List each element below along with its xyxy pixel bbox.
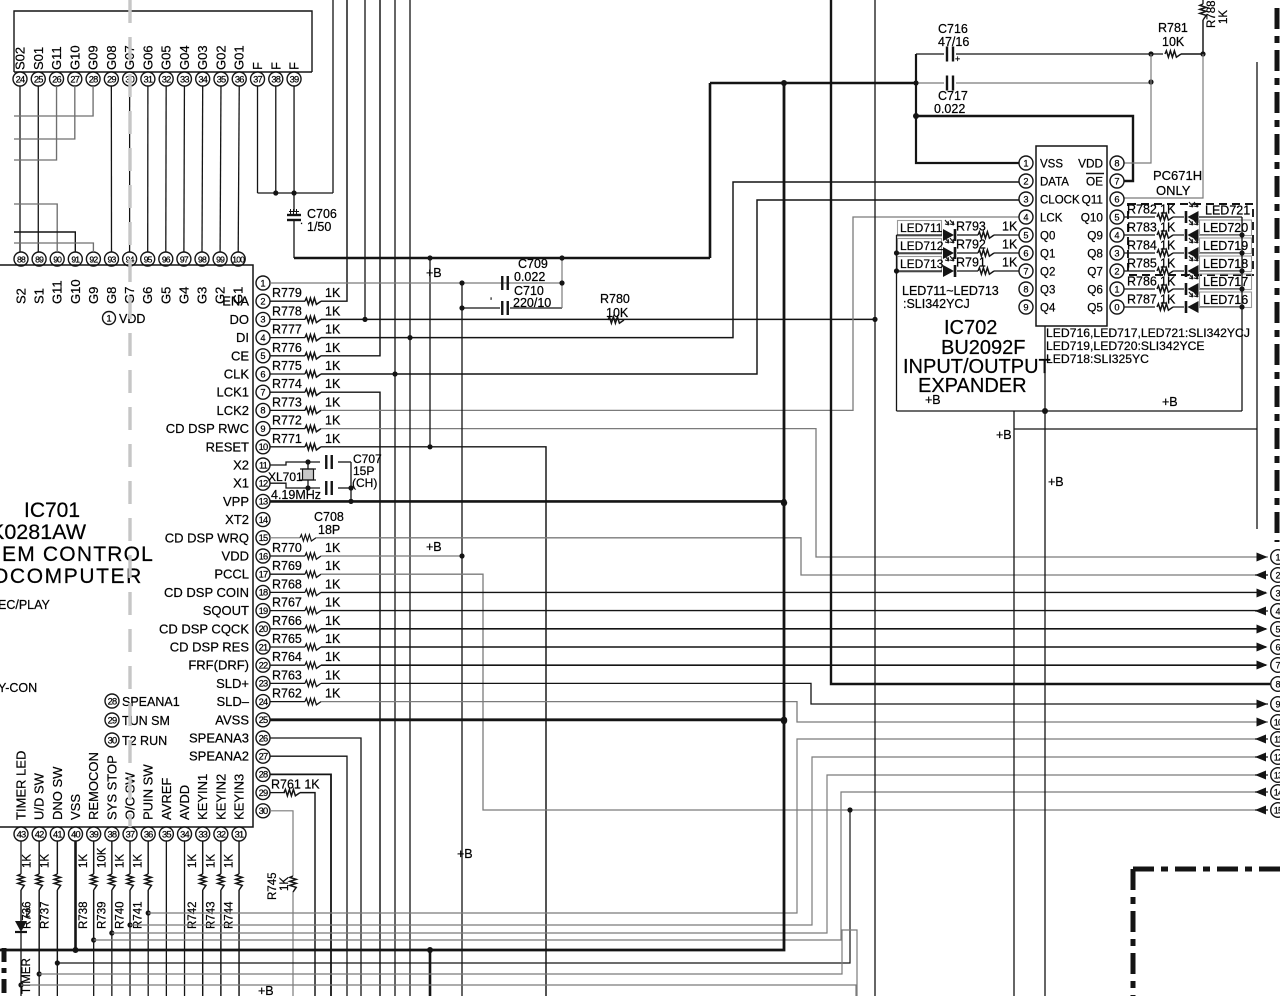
svg-text:R787: R787 — [1127, 293, 1157, 307]
svg-text:9: 9 — [260, 424, 265, 434]
svg-text:X2: X2 — [233, 458, 249, 473]
svg-text:R775: R775 — [272, 359, 302, 373]
svg-text:0.022: 0.022 — [514, 270, 545, 284]
wire X1 row — [270, 483, 320, 488]
OE overline — [1086, 173, 1104, 175]
wire LCK1 down — [321, 392, 380, 996]
svg-text:SPEANA3: SPEANA3 — [189, 731, 249, 746]
svg-text:VDD: VDD — [1078, 157, 1103, 171]
svg-text:R792: R792 — [956, 238, 986, 252]
svg-text:35: 35 — [162, 829, 171, 839]
wire U/D SW net jog — [39, 930, 857, 996]
svg-text:1K: 1K — [1002, 220, 1018, 234]
svg-text:G9: G9 — [86, 287, 101, 304]
svg-text:G5: G5 — [158, 287, 173, 304]
svg-text:95: 95 — [144, 254, 153, 264]
svg-text:8: 8 — [1275, 679, 1280, 689]
svg-text:C706: C706 — [307, 207, 337, 221]
svg-text:9: 9 — [1023, 302, 1028, 312]
svg-text:1K: 1K — [325, 304, 341, 318]
node RESET junction — [427, 444, 432, 449]
wire G08 pin29 to pin93 — [110, 86, 112, 252]
svg-text:23: 23 — [259, 679, 268, 689]
svg-text:+B: +B — [1162, 395, 1178, 409]
wire pin40 VSS thick down — [74, 841, 77, 950]
svg-text:EC/PLAY: EC/PLAY — [0, 598, 51, 612]
svg-text:12: 12 — [259, 479, 268, 489]
svg-text:93: 93 — [108, 254, 117, 264]
svg-text:R745: R745 — [267, 873, 279, 901]
svg-text:1/50: 1/50 — [307, 220, 331, 234]
svg-text:G08: G08 — [104, 45, 119, 70]
resistor R776 1K — [270, 355, 305, 357]
svg-text:7: 7 — [1275, 660, 1280, 670]
svg-text:10K: 10K — [1162, 35, 1185, 49]
svg-text:34: 34 — [198, 74, 207, 84]
svg-text:1K: 1K — [224, 854, 236, 868]
svg-text:88: 88 — [17, 254, 26, 264]
svg-text:18P: 18P — [318, 523, 340, 537]
svg-text:1K: 1K — [325, 577, 341, 591]
svg-text:G03: G03 — [195, 45, 210, 70]
svg-text:R740: R740 — [115, 902, 127, 930]
diode timer LED — [15, 921, 27, 932]
svg-text:+B: +B — [426, 266, 442, 280]
svg-text:41: 41 — [53, 829, 62, 839]
svg-text:100: 100 — [232, 254, 245, 264]
svg-text:6: 6 — [1023, 248, 1028, 258]
resistor R767 1K — [270, 610, 305, 612]
resistor R777 1K — [270, 337, 305, 339]
svg-text:2: 2 — [1275, 570, 1280, 580]
svg-text:1K: 1K — [1160, 293, 1176, 307]
wire DO long vertical x875 — [874, 0, 876, 996]
svg-text:G05: G05 — [159, 45, 174, 70]
wire pin1 +B row — [270, 282, 562, 284]
svg-text:14: 14 — [259, 515, 268, 525]
wire pin37 down — [129, 841, 131, 874]
node C710 junction — [459, 305, 464, 310]
wire +B left frame — [896, 235, 898, 411]
node timer junction — [18, 982, 23, 987]
svg-text:F: F — [268, 62, 283, 70]
svg-text:R774: R774 — [272, 377, 302, 391]
svg-text:AVSS: AVSS — [215, 712, 249, 727]
svg-text:SLD–: SLD– — [216, 694, 249, 709]
svg-text:0: 0 — [1114, 302, 1119, 312]
wire thick y83 to C717 — [710, 82, 916, 84]
wire O/C SW net to row12 — [130, 757, 1262, 925]
svg-text:3: 3 — [260, 315, 265, 325]
svg-text:1K: 1K — [1002, 256, 1018, 270]
resistor R792 1K — [957, 252, 978, 254]
svg-text:1: 1 — [1114, 284, 1119, 294]
svg-text:19: 19 — [259, 606, 268, 616]
wire VSS to IC702 pin1 — [916, 54, 1019, 163]
svg-text:1K: 1K — [325, 614, 341, 628]
wire CLK to CLOCK — [321, 200, 1019, 374]
wire SYS STOP net to row13 — [112, 775, 1262, 933]
wire SLD- row10 — [321, 702, 1268, 722]
svg-text:Q10: Q10 — [1081, 211, 1104, 225]
svg-text:LCK: LCK — [1040, 213, 1063, 225]
svg-text:96: 96 — [162, 254, 171, 264]
svg-text:R782: R782 — [1127, 203, 1157, 217]
wire REMOCON net to row14 — [94, 792, 1262, 940]
wire pin41 down — [56, 841, 58, 874]
svg-text:32: 32 — [216, 829, 225, 839]
svg-text:1K: 1K — [1160, 275, 1176, 289]
svg-text:2: 2 — [1114, 266, 1119, 276]
svg-text:4: 4 — [260, 333, 265, 343]
svg-text:1: 1 — [1275, 552, 1280, 562]
wire G10 pin91 jog left — [14, 232, 75, 252]
wire DNO SW net to row15 — [57, 810, 850, 963]
svg-text:32: 32 — [162, 74, 171, 84]
svg-text:6: 6 — [1275, 642, 1280, 652]
resistor R770 1K — [270, 555, 305, 557]
svg-text:TIMER LED: TIMER LED — [14, 751, 29, 820]
svg-text:R781: R781 — [1158, 21, 1188, 35]
svg-text:3: 3 — [1114, 248, 1119, 258]
svg-text:1K: 1K — [325, 395, 341, 409]
node connector pin 15 — [1271, 803, 1280, 818]
svg-text:1K: 1K — [78, 854, 90, 868]
wire gray y83 C717 segment — [916, 82, 944, 84]
svg-text:R788: R788 — [1206, 1, 1218, 29]
node VSS junction — [559, 255, 564, 260]
node connector pin 12 — [1271, 750, 1280, 765]
svg-text:47/16: 47/16 — [938, 35, 969, 49]
svg-text:1K: 1K — [325, 377, 341, 391]
capacitor C708 — [325, 481, 327, 495]
svg-text:12: 12 — [1274, 752, 1280, 762]
svg-text:XT2: XT2 — [225, 512, 249, 527]
svg-text:7: 7 — [1114, 176, 1119, 186]
svg-text:R780: R780 — [600, 292, 630, 306]
resistor R780 10K symbol — [608, 317, 624, 323]
svg-text:14: 14 — [1274, 787, 1280, 797]
svg-text:VDD: VDD — [119, 312, 145, 326]
node connector pin 13 — [1271, 768, 1280, 783]
svg-text:35: 35 — [217, 74, 226, 84]
svg-text:LCK2: LCK2 — [216, 403, 249, 418]
node +B right junctions — [1239, 232, 1244, 237]
svg-text:1K: 1K — [22, 854, 34, 868]
resistor R785 1K — [1124, 270, 1155, 272]
wire VSS thick x430 down — [429, 950, 432, 996]
wire G11 pin26 jog left — [14, 86, 57, 160]
wire +B bottom frame y411 — [897, 410, 1243, 412]
svg-text:G10: G10 — [67, 45, 82, 70]
svg-text:1K: 1K — [1218, 10, 1230, 24]
svg-text:LCK1: LCK1 — [216, 385, 249, 400]
svg-text:1K: 1K — [1160, 257, 1176, 271]
svg-text:U/D SW: U/D SW — [32, 772, 47, 820]
svg-text:LED718:SLI325YC: LED718:SLI325YC — [1046, 352, 1149, 366]
svg-text:': ' — [490, 296, 492, 308]
wire CQCK row5 — [321, 628, 1266, 630]
svg-text:13: 13 — [259, 497, 268, 507]
svg-text:SQOUT: SQOUT — [203, 603, 249, 618]
resistor on pin41 vertical — [54, 874, 60, 890]
svg-text:R766: R766 — [272, 614, 302, 628]
svg-text:9: 9 — [1275, 699, 1280, 709]
wire C706 net thick y258 — [294, 257, 710, 260]
wire G01 pin36 to pin100 — [238, 86, 239, 252]
svg-text:1K: 1K — [325, 359, 341, 373]
node connector pin 1 — [1271, 550, 1280, 565]
capacitor C706 — [293, 193, 295, 211]
resistor R778 1K — [270, 318, 305, 320]
wire TIMER LED net — [21, 985, 856, 996]
svg-text:R767: R767 — [272, 596, 302, 610]
svg-text:29: 29 — [259, 788, 268, 798]
svg-text:3: 3 — [1275, 588, 1280, 598]
IC701 bottom pins 43-31 — [14, 827, 28, 841]
node R781 junctions — [1148, 51, 1153, 56]
resistor R793 1K — [957, 234, 978, 236]
resistor R741 1K vertical — [145, 874, 151, 890]
svg-text:5: 5 — [1023, 230, 1028, 240]
resistor pin15 CD DSP WRQ — [270, 537, 300, 539]
resistor R783 1K — [1124, 234, 1155, 236]
svg-text:G11: G11 — [49, 46, 64, 70]
svg-text:Q3: Q3 — [1040, 285, 1055, 297]
svg-text:1: 1 — [106, 313, 111, 324]
vertical bus line x430 — [429, 258, 431, 447]
wire +B vertical x462 — [461, 283, 463, 996]
svg-text:CE: CE — [231, 348, 249, 363]
svg-text:1K: 1K — [133, 854, 145, 868]
svg-text:220/10: 220/10 — [513, 296, 551, 310]
svg-text:28: 28 — [108, 696, 117, 706]
node connector pin 14 — [1271, 785, 1280, 800]
svg-text:1K: 1K — [325, 559, 341, 573]
svg-text:RESET: RESET — [206, 439, 249, 454]
page border dash-dot bottom left — [2, 948, 7, 996]
wire pin28 down — [270, 774, 331, 996]
LED LED717 — [1173, 288, 1184, 290]
resistor R773 1K — [270, 409, 305, 411]
svg-text:26: 26 — [52, 74, 61, 84]
svg-text:LED711: LED711 — [900, 221, 943, 235]
svg-text:33: 33 — [198, 829, 207, 839]
svg-text:2: 2 — [260, 297, 265, 307]
capacitor C716 — [946, 47, 948, 62]
interior pin 29 TUN SM — [105, 713, 119, 727]
resistor R774 1K — [270, 391, 305, 393]
svg-text:Q0: Q0 — [1040, 231, 1055, 243]
svg-text:1K: 1K — [1160, 203, 1176, 217]
svg-text:R784: R784 — [1127, 239, 1157, 253]
node connector pin 10 — [1271, 715, 1280, 730]
svg-text:R785: R785 — [1127, 257, 1157, 271]
wire RESET down — [321, 447, 546, 996]
svg-text:G8: G8 — [104, 287, 119, 304]
svg-text:89: 89 — [35, 254, 44, 264]
svg-text:33: 33 — [180, 74, 189, 84]
svg-text:+B: +B — [426, 540, 442, 554]
svg-text:R739: R739 — [96, 902, 108, 930]
svg-text:G02: G02 — [213, 45, 228, 70]
svg-text:21: 21 — [259, 642, 268, 652]
svg-text:24: 24 — [259, 697, 268, 707]
svg-text:1K: 1K — [325, 687, 341, 701]
node VSS junction — [73, 947, 79, 953]
svg-text:8: 8 — [1114, 158, 1119, 168]
LED LED720 — [1173, 234, 1184, 236]
svg-text:OCOMPUTER: OCOMPUTER — [0, 565, 143, 588]
svg-text:PUIN SW: PUIN SW — [141, 764, 156, 820]
wire pin32 down — [220, 841, 222, 874]
node row15 junction — [847, 807, 852, 812]
svg-text:R769: R769 — [272, 559, 302, 573]
svg-text:DI: DI — [236, 330, 249, 345]
svg-text:AVDD: AVDD — [177, 785, 192, 820]
svg-text:G3: G3 — [195, 287, 210, 304]
svg-text:S2: S2 — [14, 288, 29, 304]
LED LED721 — [1173, 216, 1184, 218]
resistor R772 1K — [270, 428, 305, 430]
wire VDD to +B — [321, 555, 462, 557]
vertical bus line x410 — [409, 0, 411, 996]
resistor R787 1K — [1124, 306, 1155, 308]
svg-text:CD DSP RES: CD DSP RES — [170, 640, 250, 655]
svg-text:18: 18 — [259, 588, 268, 598]
page border dash-dot bottom right corner — [1133, 867, 1280, 872]
wire pin42 down — [38, 841, 40, 874]
svg-text:28: 28 — [89, 74, 98, 84]
node CLK junction — [392, 371, 397, 376]
capacitor C717 — [946, 76, 948, 91]
wire SQOUT row4 — [321, 610, 1266, 612]
svg-text:+B: +B — [925, 393, 941, 407]
svg-text:R791: R791 — [956, 256, 986, 270]
svg-text:CD DSP WRQ: CD DSP WRQ — [165, 530, 249, 545]
svg-text:IC702: IC702 — [944, 317, 997, 339]
svg-text:1K: 1K — [325, 432, 341, 446]
svg-text:27: 27 — [70, 74, 79, 84]
svg-text:Q6: Q6 — [1087, 283, 1103, 297]
svg-text:SYS STOP: SYS STOP — [104, 755, 119, 820]
op-amp IC702 BU2092F box — [1036, 146, 1107, 326]
wire OE thick net y116 — [916, 116, 1133, 181]
wire X2 row — [270, 462, 320, 465]
svg-text:S01: S01 — [31, 47, 46, 70]
wire VPP thick row — [270, 500, 784, 503]
node connector pin 7 — [1271, 658, 1280, 673]
svg-text:92: 92 — [89, 254, 98, 264]
svg-text:F: F — [287, 62, 302, 70]
svg-text:1K: 1K — [1160, 239, 1176, 253]
wire AVSS thick — [270, 718, 784, 721]
resistor R779 1K — [270, 300, 305, 302]
svg-text:4: 4 — [1114, 230, 1119, 240]
svg-text:Q8: Q8 — [1087, 247, 1103, 261]
svg-text:1K: 1K — [325, 286, 341, 300]
svg-text:G09: G09 — [86, 45, 101, 70]
svg-text:43: 43 — [17, 829, 26, 839]
node connector pin 6 — [1271, 640, 1280, 655]
wire RWC to connector row1 — [321, 429, 1268, 557]
node +B junction — [1042, 408, 1048, 414]
svg-text:SLD+: SLD+ — [216, 676, 249, 691]
svg-text:R764: R764 — [272, 650, 302, 664]
svg-text:Q2: Q2 — [1040, 267, 1055, 279]
IC701 right-edge pins 1-30 — [256, 276, 270, 290]
LED LED716 — [1173, 306, 1184, 308]
svg-text:1K: 1K — [325, 323, 341, 337]
svg-text:1K: 1K — [1002, 238, 1018, 252]
wire ENA to top — [321, 0, 347, 301]
svg-text:R765: R765 — [272, 632, 302, 646]
wire Q11 to R781 net — [1124, 54, 1203, 198]
svg-text:97: 97 — [180, 254, 189, 264]
wire pin29 down — [300, 793, 315, 996]
svg-text:11: 11 — [259, 460, 268, 470]
node x430 top — [427, 255, 432, 260]
svg-text:S02: S02 — [13, 47, 28, 70]
wire G07 pin30 to pin94 — [129, 86, 131, 252]
svg-text:99: 99 — [216, 254, 225, 264]
svg-text:20: 20 — [259, 624, 268, 634]
resistor R742 1K vertical — [200, 874, 206, 890]
svg-text:7: 7 — [260, 388, 265, 398]
svg-text:1K: 1K — [40, 854, 52, 868]
svg-text:1K: 1K — [325, 596, 341, 610]
svg-text:KEYIN1: KEYIN1 — [195, 774, 210, 820]
svg-text:1K: 1K — [325, 632, 341, 646]
svg-text:24: 24 — [16, 74, 25, 84]
svg-text:R763: R763 — [272, 668, 302, 682]
svg-text:26: 26 — [259, 733, 268, 743]
svg-text:ENA: ENA — [222, 294, 249, 309]
svg-text:4: 4 — [1023, 212, 1028, 222]
svg-text:.: . — [300, 215, 303, 227]
svg-text:30: 30 — [259, 806, 268, 816]
svg-text:10: 10 — [1274, 717, 1280, 727]
wire G05 pin32 to pin96 — [165, 86, 167, 252]
wire G02 pin35 to pin99 — [219, 86, 222, 252]
svg-text:37: 37 — [126, 829, 135, 839]
svg-text:25: 25 — [259, 715, 268, 725]
IC702 right pins 18-10 (leading 1 hidden in scan) — [1110, 156, 1124, 170]
wire PUIN SW net to row11 — [148, 739, 1262, 913]
wire RES row6 — [321, 646, 1266, 648]
svg-text:(CH): (CH) — [352, 476, 377, 490]
svg-text:R762: R762 — [272, 687, 302, 701]
IC701 microcomputer box — [0, 265, 253, 827]
svg-text:R768: R768 — [272, 577, 302, 591]
resistor R739 10K vertical — [109, 874, 115, 890]
wire G06 pin31 to pin95 — [147, 86, 149, 252]
svg-text:30: 30 — [108, 735, 117, 745]
wire DO to top — [364, 0, 366, 319]
wire pin33 down — [202, 841, 204, 874]
IC701 top pins 88-100 — [14, 252, 28, 266]
wire vertical x1257 right side — [1256, 62, 1258, 529]
svg-text:R770: R770 — [272, 541, 302, 555]
capacitor C707 — [325, 455, 327, 469]
resistor R784 1K — [1124, 252, 1155, 254]
svg-text:LED711~LED713: LED711~LED713 — [902, 284, 999, 298]
wire pin31 down — [238, 841, 240, 874]
wire G09 pin28 jog left — [14, 86, 93, 116]
svg-text:R776: R776 — [272, 341, 302, 355]
svg-text:28: 28 — [259, 770, 268, 780]
svg-text:+B: +B — [1048, 475, 1064, 489]
